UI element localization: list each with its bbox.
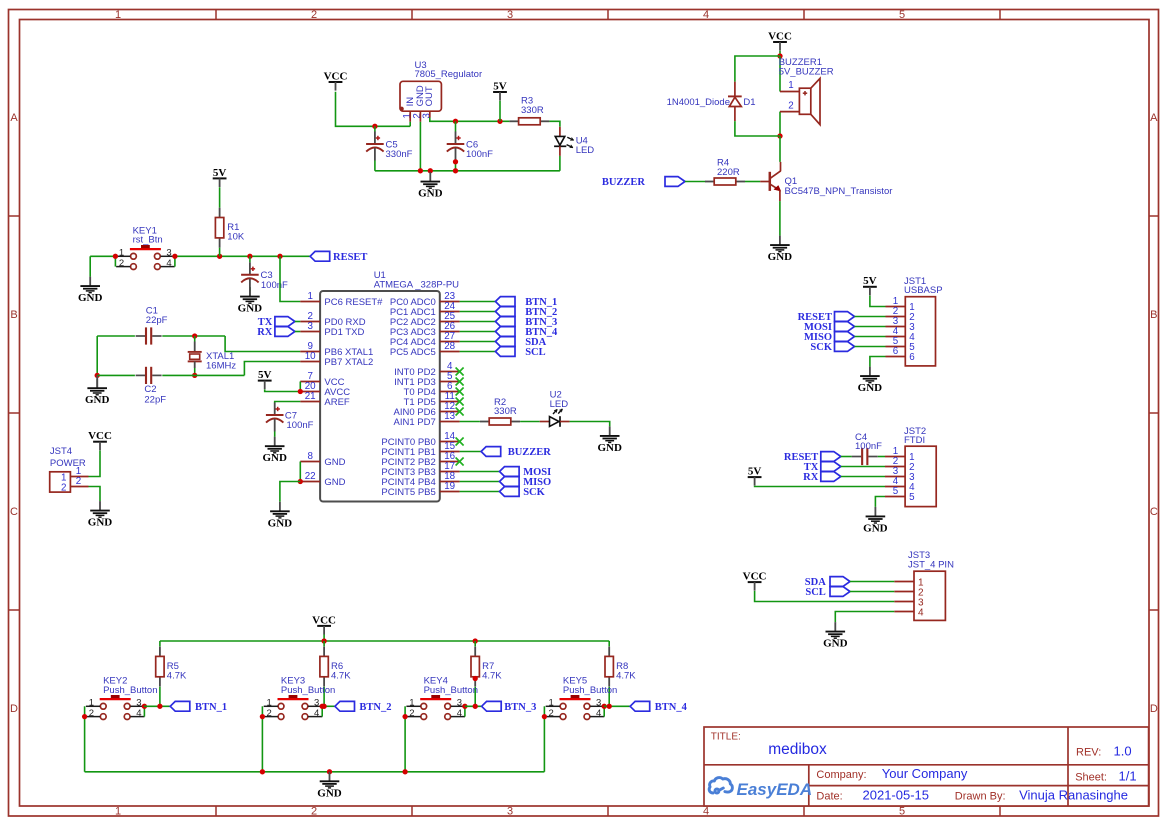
svg-text:2: 2 bbox=[89, 708, 94, 719]
svg-text:VCC: VCC bbox=[312, 614, 336, 626]
svg-text:JST4: JST4 bbox=[50, 446, 72, 457]
svg-text:GND: GND bbox=[268, 517, 293, 529]
svg-text:16MHz: 16MHz bbox=[206, 361, 236, 372]
svg-text:3: 3 bbox=[457, 697, 462, 708]
svg-text:RX: RX bbox=[257, 327, 273, 338]
svg-text:330R: 330R bbox=[521, 105, 544, 116]
svg-text:8: 8 bbox=[307, 451, 313, 462]
svg-text:Push_Button: Push_Button bbox=[281, 685, 335, 696]
svg-text:7805_Regulator: 7805_Regulator bbox=[415, 69, 483, 80]
svg-text:Push_Button: Push_Button bbox=[424, 685, 478, 696]
svg-text:1: 1 bbox=[115, 9, 121, 21]
svg-text:19: 19 bbox=[444, 481, 455, 492]
svg-text:Your Company: Your Company bbox=[882, 766, 968, 781]
svg-text:SCL: SCL bbox=[805, 587, 825, 598]
svg-text:5: 5 bbox=[899, 9, 905, 21]
svg-text:1: 1 bbox=[307, 291, 312, 302]
svg-text:Push_Button: Push_Button bbox=[103, 685, 157, 696]
svg-text:22: 22 bbox=[305, 471, 316, 482]
svg-text:4: 4 bbox=[918, 607, 924, 618]
svg-text:A: A bbox=[1150, 112, 1158, 124]
svg-text:GND: GND bbox=[324, 457, 345, 468]
svg-text:BTN_2: BTN_2 bbox=[359, 702, 391, 713]
svg-text:330nF: 330nF bbox=[386, 149, 413, 160]
svg-text:Drawn By:: Drawn By: bbox=[955, 791, 1006, 803]
svg-text:SCK: SCK bbox=[523, 487, 545, 498]
svg-text:3: 3 bbox=[596, 697, 601, 708]
svg-text:6: 6 bbox=[893, 346, 899, 357]
svg-text:4: 4 bbox=[136, 708, 141, 719]
svg-text:PC6 RESET#: PC6 RESET# bbox=[324, 297, 383, 308]
svg-text:BTN_3: BTN_3 bbox=[504, 702, 536, 713]
svg-text:TITLE:: TITLE: bbox=[711, 731, 741, 742]
svg-text:JST_4 PIN: JST_4 PIN bbox=[908, 560, 954, 571]
svg-text:GND: GND bbox=[324, 477, 345, 488]
svg-text:5V: 5V bbox=[748, 466, 762, 478]
svg-text:2: 2 bbox=[119, 258, 124, 269]
svg-text:21: 21 bbox=[305, 391, 316, 402]
svg-text:2: 2 bbox=[61, 482, 66, 493]
svg-text:22pF: 22pF bbox=[144, 394, 166, 405]
svg-text:1: 1 bbox=[267, 697, 272, 708]
svg-text:100nF: 100nF bbox=[855, 441, 882, 452]
svg-text:5: 5 bbox=[893, 486, 899, 497]
svg-text:B: B bbox=[10, 309, 17, 321]
svg-text:3: 3 bbox=[166, 247, 171, 258]
svg-text:13: 13 bbox=[444, 411, 455, 422]
svg-text:3: 3 bbox=[507, 9, 513, 21]
svg-text:4: 4 bbox=[457, 708, 462, 719]
svg-text:GND: GND bbox=[88, 517, 113, 529]
svg-text:3: 3 bbox=[314, 697, 319, 708]
svg-text:2: 2 bbox=[76, 476, 81, 487]
svg-text:1: 1 bbox=[409, 697, 414, 708]
svg-text:GND: GND bbox=[768, 251, 793, 263]
svg-text:EasyEDA: EasyEDA bbox=[737, 780, 813, 799]
svg-text:4.7K: 4.7K bbox=[167, 671, 187, 682]
svg-text:RESET: RESET bbox=[333, 252, 367, 263]
svg-text:22pF: 22pF bbox=[146, 315, 168, 326]
svg-text:PCINT5 PB5: PCINT5 PB5 bbox=[381, 487, 435, 498]
svg-text:2021-05-15: 2021-05-15 bbox=[863, 788, 930, 803]
svg-text:GND: GND bbox=[238, 303, 263, 315]
svg-text:5V: 5V bbox=[863, 275, 877, 287]
svg-text:3: 3 bbox=[307, 321, 313, 332]
svg-text:PD1 TXD: PD1 TXD bbox=[324, 327, 364, 338]
svg-text:Vinuja Ranasinghe: Vinuja Ranasinghe bbox=[1019, 788, 1128, 803]
svg-text:100nF: 100nF bbox=[287, 420, 314, 431]
svg-text:C: C bbox=[1150, 506, 1158, 518]
svg-text:Date:: Date: bbox=[816, 791, 842, 803]
svg-text:5: 5 bbox=[909, 492, 915, 503]
svg-text:D: D bbox=[10, 703, 18, 715]
svg-text:1: 1 bbox=[119, 247, 124, 258]
svg-text:VCC: VCC bbox=[324, 70, 348, 82]
svg-text:4: 4 bbox=[703, 805, 709, 817]
svg-text:100nF: 100nF bbox=[466, 149, 493, 160]
svg-text:1: 1 bbox=[788, 80, 793, 91]
svg-text:BUZZER: BUZZER bbox=[508, 447, 552, 458]
svg-text:OUT: OUT bbox=[424, 86, 435, 106]
svg-text:FTDI: FTDI bbox=[904, 435, 925, 446]
svg-text:1.0: 1.0 bbox=[1114, 743, 1132, 758]
svg-text:1: 1 bbox=[89, 697, 94, 708]
svg-text:BTN_1: BTN_1 bbox=[195, 702, 227, 713]
svg-text:VCC: VCC bbox=[88, 430, 112, 442]
svg-text:1/1: 1/1 bbox=[1119, 769, 1137, 784]
svg-text:3: 3 bbox=[421, 113, 432, 119]
svg-text:GND: GND bbox=[78, 292, 103, 304]
svg-text:4: 4 bbox=[596, 708, 601, 719]
svg-text:1: 1 bbox=[549, 697, 554, 708]
svg-text:10: 10 bbox=[305, 351, 316, 362]
svg-text:BUZZER: BUZZER bbox=[602, 177, 646, 188]
svg-text:4.7K: 4.7K bbox=[616, 671, 636, 682]
svg-text:GND: GND bbox=[262, 452, 287, 464]
svg-text:USBASP: USBASP bbox=[904, 285, 943, 296]
svg-text:4: 4 bbox=[314, 708, 319, 719]
svg-text:4: 4 bbox=[166, 258, 171, 269]
svg-text:GND: GND bbox=[858, 382, 883, 394]
svg-text:SCK: SCK bbox=[810, 342, 832, 353]
svg-text:VCC: VCC bbox=[743, 571, 767, 583]
svg-text:SCL: SCL bbox=[525, 347, 545, 358]
svg-text:REV:: REV: bbox=[1076, 746, 1101, 758]
svg-text:4.7K: 4.7K bbox=[331, 671, 351, 682]
svg-text:2: 2 bbox=[267, 708, 272, 719]
svg-text:Sheet:: Sheet: bbox=[1075, 772, 1107, 784]
svg-text:BC547B_NPN_Transistor: BC547B_NPN_Transistor bbox=[785, 186, 893, 197]
svg-text:5V: 5V bbox=[258, 369, 272, 381]
svg-text:2: 2 bbox=[549, 708, 554, 719]
svg-text:rst_Btn: rst_Btn bbox=[133, 235, 163, 246]
svg-text:BTN_4: BTN_4 bbox=[655, 702, 688, 713]
svg-text:AIN1 PD7: AIN1 PD7 bbox=[394, 417, 436, 428]
svg-text:3: 3 bbox=[136, 697, 141, 708]
svg-text:220R: 220R bbox=[717, 167, 740, 178]
svg-text:medibox: medibox bbox=[768, 741, 827, 758]
svg-text:D: D bbox=[1150, 703, 1158, 715]
svg-text:100nF: 100nF bbox=[261, 280, 288, 291]
svg-text:5V: 5V bbox=[493, 80, 507, 92]
svg-text:1: 1 bbox=[115, 805, 121, 817]
svg-text:GND: GND bbox=[317, 787, 342, 799]
svg-text:RX: RX bbox=[803, 472, 819, 483]
svg-text:2: 2 bbox=[311, 9, 317, 21]
svg-text:5: 5 bbox=[899, 805, 905, 817]
svg-text:VCC: VCC bbox=[768, 30, 792, 42]
svg-text:Push_Button: Push_Button bbox=[563, 685, 617, 696]
svg-text:PB7 XTAL2: PB7 XTAL2 bbox=[324, 357, 373, 368]
svg-text:1N4001_Diode: 1N4001_Diode bbox=[667, 97, 730, 108]
svg-text:6: 6 bbox=[909, 352, 915, 363]
svg-text:4: 4 bbox=[703, 9, 709, 21]
svg-text:GND: GND bbox=[418, 188, 443, 200]
svg-text:LED: LED bbox=[576, 145, 595, 156]
svg-text:D1: D1 bbox=[743, 97, 755, 108]
svg-text:ATMEGA _328P-PU: ATMEGA _328P-PU bbox=[374, 279, 459, 290]
svg-text:4.7K: 4.7K bbox=[482, 671, 502, 682]
svg-text:C: C bbox=[10, 506, 18, 518]
svg-text:GND: GND bbox=[597, 442, 622, 454]
svg-text:Company:: Company: bbox=[816, 769, 866, 781]
svg-text:AREF: AREF bbox=[324, 397, 350, 408]
svg-text:5V: 5V bbox=[213, 167, 227, 179]
svg-text:10K: 10K bbox=[227, 232, 245, 243]
svg-text:GND: GND bbox=[85, 394, 110, 406]
svg-text:330R: 330R bbox=[494, 406, 517, 417]
svg-text:2: 2 bbox=[409, 708, 414, 719]
svg-text:28: 28 bbox=[444, 341, 455, 352]
svg-text:2: 2 bbox=[311, 805, 317, 817]
svg-text:A: A bbox=[10, 112, 18, 124]
svg-text:3: 3 bbox=[507, 805, 513, 817]
svg-text:2: 2 bbox=[788, 100, 793, 111]
svg-text:GND: GND bbox=[863, 522, 888, 534]
svg-text:LED: LED bbox=[550, 399, 569, 410]
svg-text:B: B bbox=[1150, 309, 1157, 321]
svg-text:GND: GND bbox=[823, 638, 848, 650]
svg-text:PC5 ADC5: PC5 ADC5 bbox=[390, 347, 436, 358]
svg-text:5V_BUZZER: 5V_BUZZER bbox=[779, 67, 834, 78]
